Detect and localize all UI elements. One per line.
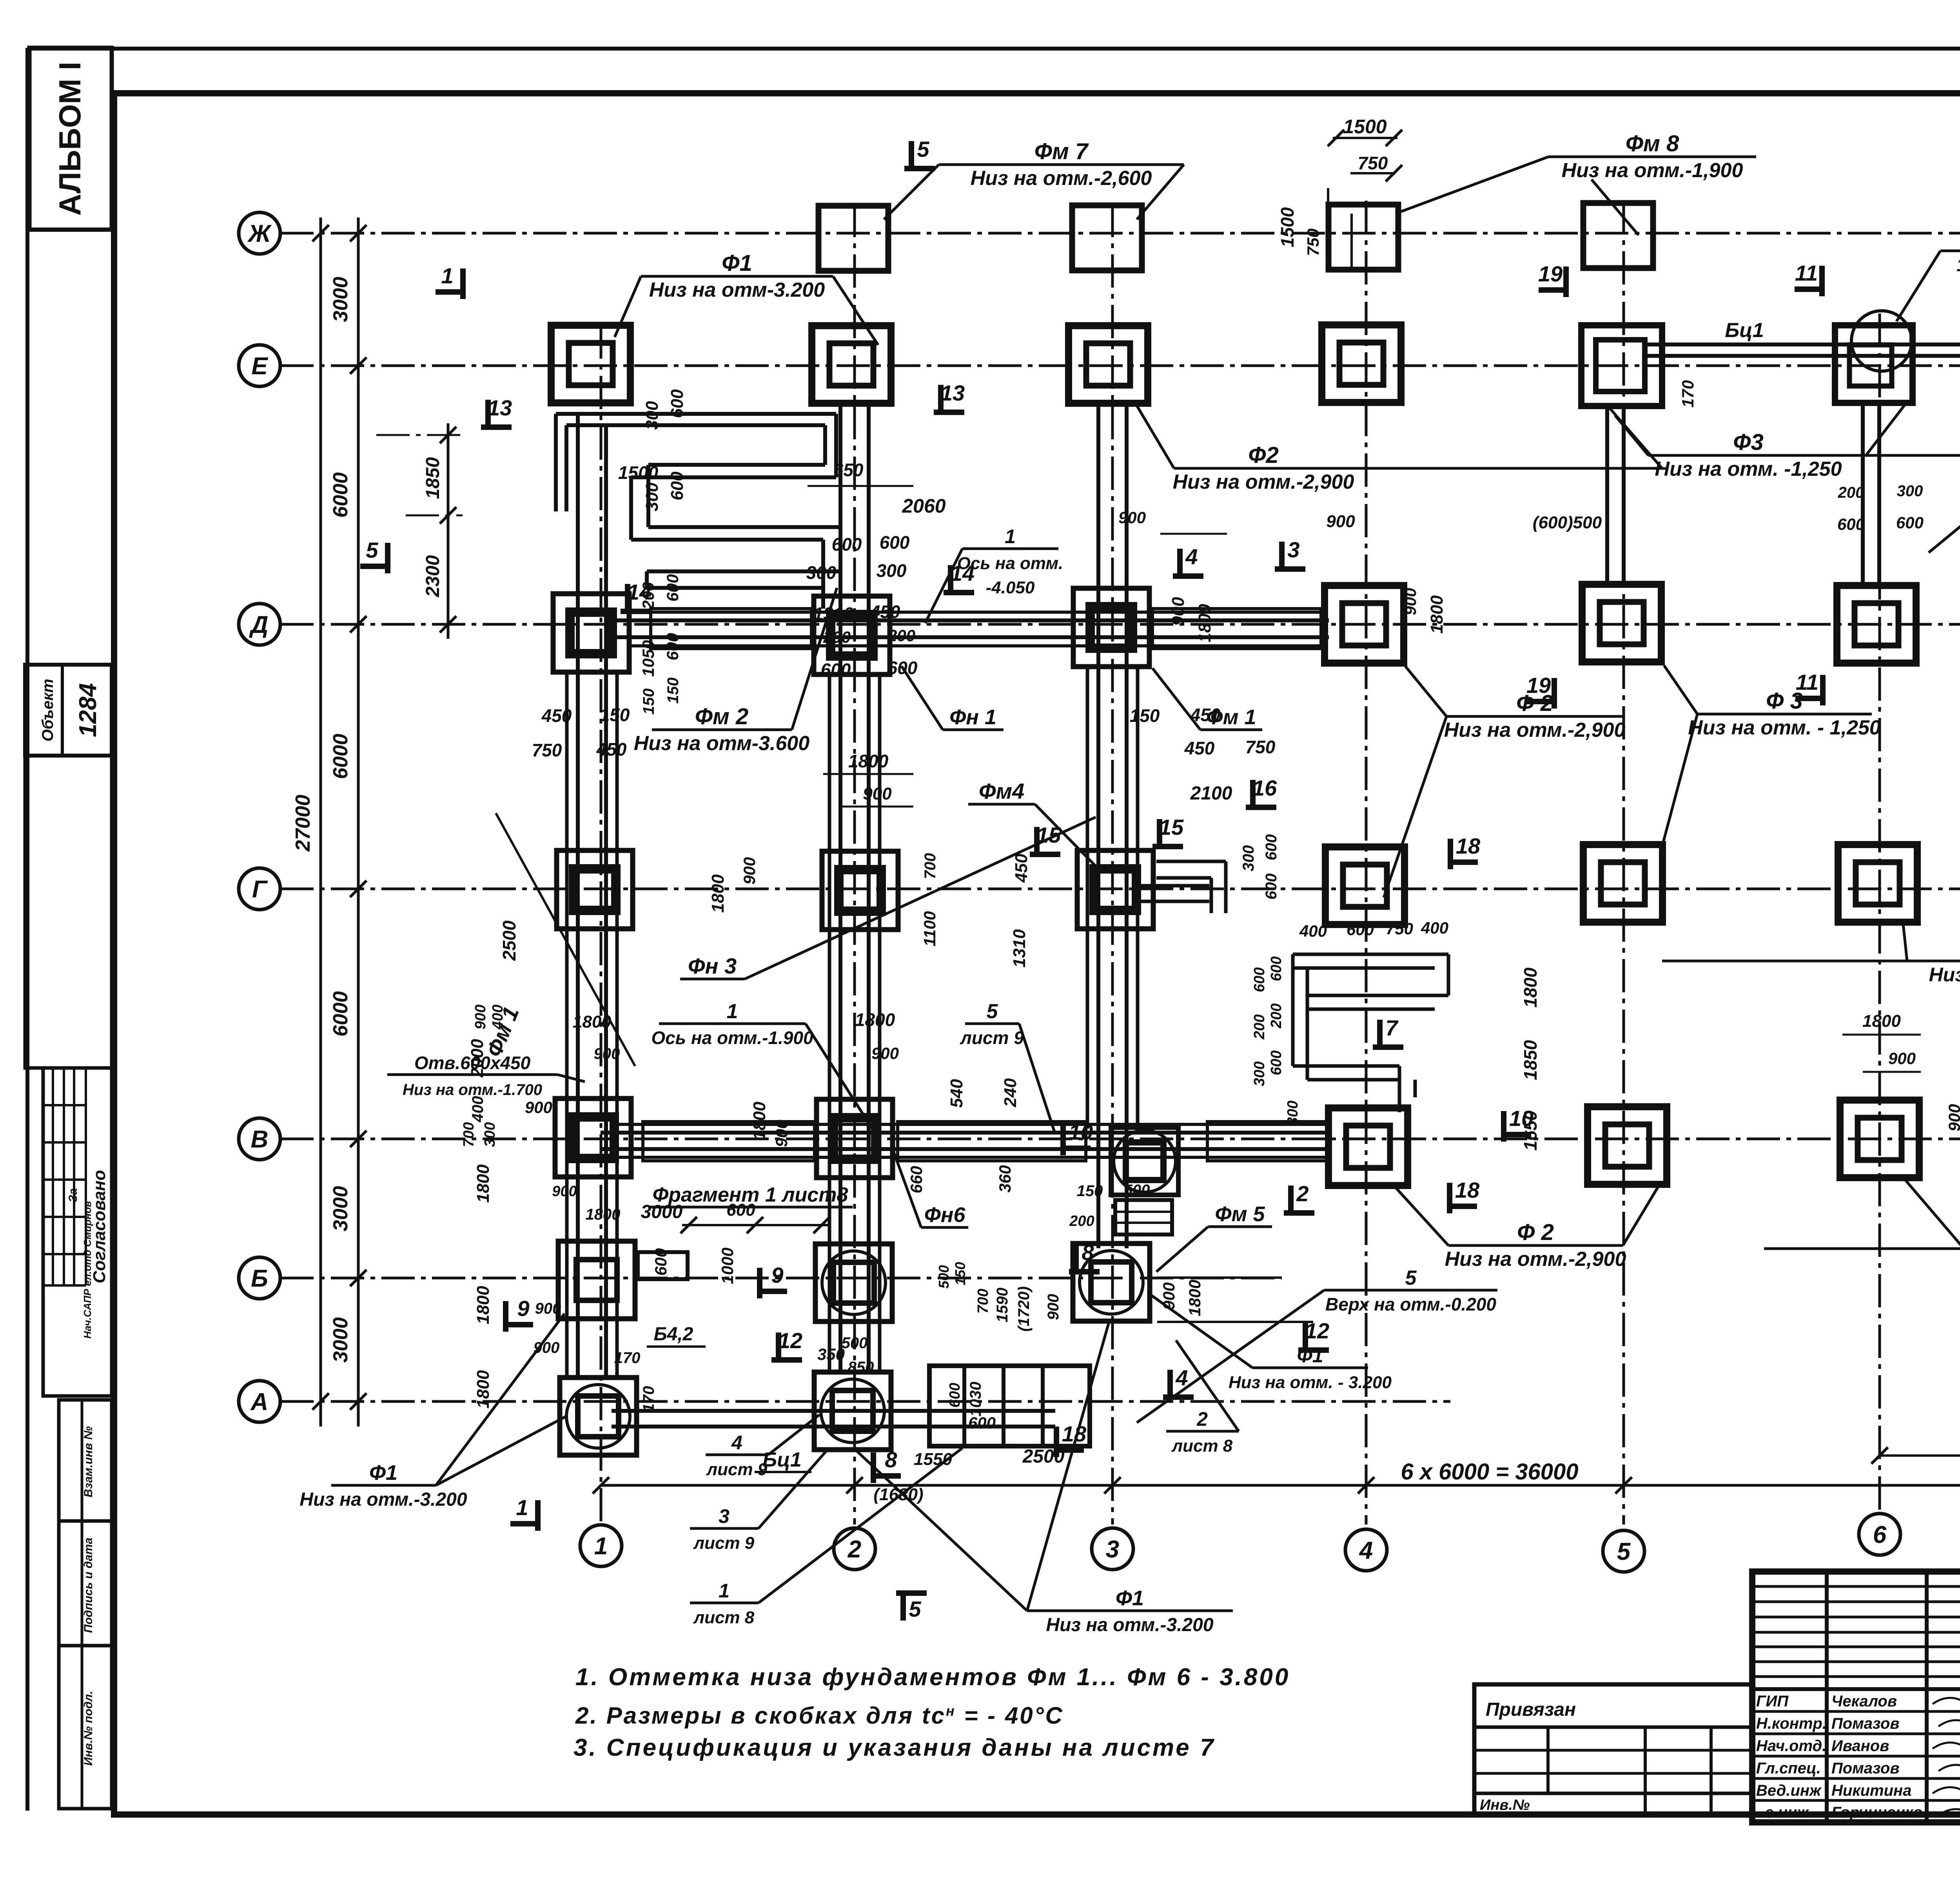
svg-text:1500: 1500	[1343, 116, 1387, 138]
svg-text:5: 5	[1617, 1538, 1631, 1565]
svg-text:Фм 8: Фм 8	[1626, 131, 1679, 156]
svg-text:600: 600	[1347, 920, 1374, 939]
svg-text:15: 15	[1036, 823, 1061, 847]
svg-text:1050: 1050	[639, 640, 657, 676]
strip link col3-col4 row Г	[1133, 884, 1209, 888]
svg-text:1284: 1284	[74, 683, 102, 737]
svg-text:300: 300	[642, 482, 662, 511]
svg-text:Ф1: Ф1	[369, 1461, 397, 1485]
svg-text:лист 8: лист 8	[1171, 1436, 1233, 1456]
svg-text:Ф1: Ф1	[722, 250, 752, 276]
svg-text:2500: 2500	[499, 920, 519, 961]
svg-text:2060: 2060	[902, 495, 946, 517]
axis line 4	[1365, 201, 1368, 1525]
section mark 18 at (3700,2200)	[1450, 859, 1478, 865]
svg-text:5: 5	[917, 137, 929, 161]
svg-text:Низ на отм. - 1,250: Низ на отм. - 1,250	[1688, 716, 1881, 739]
svg-text:27000: 27000	[292, 795, 314, 852]
foundation square col5 row Е with strip connection	[1581, 325, 1662, 406]
svg-text:лист 8: лист 8	[693, 1608, 755, 1627]
svg-text:600: 600	[1263, 874, 1280, 900]
svg-text:6: 6	[1873, 1521, 1887, 1548]
axis bubble 1	[580, 1525, 622, 1566]
svg-text:1800: 1800	[1195, 604, 1214, 642]
svg-text:5: 5	[1405, 1267, 1417, 1289]
svg-text:6 х 6000 = 36000: 6 х 6000 = 36000	[1401, 1459, 1578, 1485]
svg-text:450: 450	[596, 739, 627, 760]
svg-text:лист 9: лист 9	[960, 1028, 1024, 1048]
section mark 4 at (3010,1470)	[1177, 549, 1183, 576]
section mark 13 at (1245,1090)	[485, 400, 491, 427]
svg-text:900: 900	[772, 1120, 791, 1147]
svg-text:1: 1	[516, 1495, 528, 1520]
svg-text:900: 900	[871, 1044, 899, 1062]
section mark 12 at (3330,3445)	[1303, 1323, 1308, 1350]
svg-text:4: 4	[1185, 544, 1198, 569]
porch foundation block	[929, 1366, 1090, 1446]
svg-text:900: 900	[525, 1098, 552, 1117]
svg-text:Низ на отм.-2,600: Низ на отм.-2,600	[971, 167, 1152, 190]
svg-text:1800: 1800	[855, 1010, 895, 1030]
svg-text:150: 150	[952, 1262, 968, 1285]
svg-text:Низ на отм.-2,900: Низ на отм.-2,900	[1173, 471, 1354, 493]
axis bubble 5	[1603, 1530, 1644, 1572]
svg-text:3: 3	[1287, 537, 1299, 562]
svg-text:Иванов: Иванов	[1831, 1737, 1889, 1755]
label 52	[1940, 250, 1960, 252]
svg-text:Фм 2: Фм 2	[695, 704, 749, 729]
svg-text:350: 350	[817, 1345, 845, 1363]
svg-text:900: 900	[472, 1004, 489, 1029]
svg-text:1550: 1550	[914, 1450, 952, 1469]
svg-text:лист 9: лист 9	[706, 1460, 768, 1479]
svg-text:600: 600	[887, 658, 918, 678]
foundation double square at (4790,2254)	[1838, 845, 1917, 922]
svg-text:750: 750	[1358, 153, 1388, 173]
svg-text:1800: 1800	[708, 874, 728, 913]
foundation double square at (2827,930)	[1069, 326, 1148, 403]
label Фм1-прав	[1200, 729, 1262, 731]
label Отв	[387, 1073, 557, 1076]
svg-text:3: 3	[1106, 1536, 1119, 1563]
svg-text:Фн 1: Фн 1	[949, 705, 996, 729]
svg-text:18: 18	[1455, 1178, 1480, 1202]
label оcь4050	[962, 547, 1058, 550]
building foundation at (1522,3266) rows Б/А	[558, 1241, 635, 1319]
svg-text:3: 3	[719, 1505, 730, 1527]
section mark 9 at (1290,3380)	[506, 1322, 533, 1327]
label Фн3	[680, 978, 745, 981]
svg-text:Низ на отм.-1.700: Низ на отм.-1.700	[403, 1081, 542, 1099]
svg-text:400: 400	[490, 1004, 506, 1030]
svg-text:200: 200	[1838, 484, 1864, 501]
svg-text:1100: 1100	[920, 911, 939, 946]
section mark 10 at (3836,2895)	[1504, 1132, 1531, 1137]
foundation double square at (3490,2926)	[1328, 1108, 1408, 1186]
svg-text:300: 300	[806, 562, 837, 583]
svg-text:19: 19	[1526, 673, 1551, 698]
svg-text:Ф1: Ф1	[1116, 1586, 1144, 1610]
svg-text:Подпись и дата: Подпись и дата	[82, 1537, 95, 1633]
label лист8-2	[1166, 1430, 1239, 1433]
label лист9-4	[706, 1454, 768, 1456]
building foundation at (2175,3600) rows Б/А	[814, 1372, 891, 1450]
svg-text:900: 900	[1945, 1104, 1960, 1131]
svg-text:11: 11	[1796, 670, 1818, 694]
svg-text:1800: 1800	[573, 1012, 611, 1031]
svg-text:450: 450	[1184, 738, 1215, 758]
section mark 11 at (4650,1782)	[1795, 696, 1823, 701]
svg-text:9: 9	[517, 1296, 529, 1321]
svg-text:2000: 2000	[468, 1039, 487, 1078]
label Ф3-Г	[1907, 960, 1960, 963]
svg-text:200: 200	[639, 582, 657, 610]
svg-text:2: 2	[1196, 1408, 1208, 1430]
section mark 1 at (1181,745)	[436, 289, 463, 295]
serpentine strip bar3	[648, 525, 840, 529]
svg-text:1: 1	[1005, 526, 1016, 547]
svg-text:1.030.1 - 1 В. 3-1: 1.030.1 - 1 В. 3-1	[1956, 255, 1960, 275]
svg-text:750: 750	[1304, 228, 1322, 256]
svg-text:300: 300	[1285, 1100, 1301, 1125]
svg-text:600: 600	[663, 574, 682, 602]
svg-text:1800: 1800	[474, 1370, 493, 1409]
svg-text:1800: 1800	[1862, 1012, 1901, 1031]
right vertical strip col6	[1861, 403, 1865, 585]
svg-text:Гл.спец.: Гл.спец.	[1756, 1760, 1821, 1777]
building foundation at (2835,3272) rows Б/А	[1073, 1244, 1150, 1321]
svg-text:Вед.инж: Вед.инж	[1756, 1782, 1822, 1799]
label лист8-1	[690, 1602, 759, 1604]
label Верх0200	[1324, 1289, 1497, 1292]
svg-text:300: 300	[482, 1122, 498, 1147]
svg-text:1500: 1500	[618, 462, 659, 483]
svg-text:Фм 5: Фм 5	[1215, 1202, 1265, 1226]
svg-text:Объект: Объект	[39, 679, 56, 741]
svg-text:Горчиненко: Горчиненко	[1831, 1804, 1922, 1821]
axis line В	[280, 1138, 1960, 1140]
label Ф1-срБ	[1252, 1367, 1368, 1369]
svg-text:1. Отметка низа фундаментов Ф: 1. Отметка низа фундаментов Фм 1... Фм 6…	[575, 1664, 1290, 1691]
svg-text:Низ на отм-3.200: Низ на отм-3.200	[649, 279, 825, 301]
svg-text:1310: 1310	[1010, 929, 1029, 968]
stepped strips between rows Г and В	[1293, 953, 1448, 956]
svg-text:900: 900	[535, 1300, 561, 1317]
axis line 2	[853, 204, 856, 1525]
svg-text:Ф2: Ф2	[1248, 442, 1279, 468]
svg-text:12: 12	[778, 1328, 802, 1353]
section mark 8 at (2228,3766)	[873, 1473, 901, 1479]
svg-text:1850: 1850	[423, 457, 443, 499]
svg-text:Низ на отм. - 3.200: Низ на отм. - 3.200	[1229, 1373, 1392, 1392]
section mark 1 at (1372,3888)	[510, 1521, 538, 1526]
section mark 19 at (3995,740)	[1539, 287, 1566, 293]
svg-text:1800: 1800	[1185, 1280, 1204, 1316]
svg-text:750: 750	[1245, 737, 1276, 757]
svg-text:150: 150	[1130, 705, 1160, 726]
dim line 1850/2300	[447, 423, 450, 639]
svg-text:6000: 6000	[329, 472, 352, 518]
building foundation col3 row В (offset)	[1111, 1128, 1178, 1195]
svg-text:1590: 1590	[994, 1288, 1011, 1323]
section mark 14 at (2425,1512)	[948, 565, 953, 593]
label Ф2-Е	[1174, 467, 1353, 470]
serpentine strip right link	[834, 414, 838, 477]
svg-text:1030: 1030	[967, 1382, 984, 1417]
stub rect right of col1 row Б	[638, 1252, 688, 1279]
svg-text:5: 5	[909, 1597, 921, 1621]
left strip tall empty box	[25, 756, 112, 1068]
svg-text:Г: Г	[252, 876, 268, 903]
svg-text:11: 11	[1795, 261, 1818, 285]
axis line 3	[1111, 204, 1114, 1525]
axis bubble 6	[1859, 1514, 1900, 1555]
axis line А	[280, 1400, 1450, 1403]
svg-text:600: 600	[1837, 515, 1865, 533]
foundation double square at (2172,930)	[812, 326, 891, 403]
svg-text:300: 300	[642, 401, 662, 430]
svg-text:2. Размеры в скобках для tcн: 2. Размеры в скобках для tcн = - 40°С	[575, 1702, 1064, 1729]
svg-text:1500: 1500	[1277, 207, 1298, 247]
svg-text:300: 300	[877, 560, 907, 581]
dim line 1800 row Е col3 (650)	[808, 485, 913, 487]
svg-text:600: 600	[968, 1414, 996, 1432]
svg-text:400: 400	[1421, 919, 1448, 937]
svg-text:1310: 1310	[813, 604, 854, 624]
label Ф1-Е	[641, 275, 833, 278]
svg-text:Инв.№: Инв.№	[1480, 1797, 1530, 1813]
svg-text:Помазов: Помазов	[1831, 1760, 1900, 1777]
svg-text:450: 450	[870, 602, 900, 622]
svg-text:Низ на отм.-3.200: Низ на отм.-3.200	[299, 1489, 467, 1510]
section mark 18 at (2695,3700)	[1056, 1447, 1084, 1453]
svg-text:200: 200	[1268, 1003, 1285, 1028]
axis bubble Б	[239, 1257, 280, 1299]
svg-text:Чекалов: Чекалов	[1831, 1693, 1897, 1710]
svg-text:600: 600	[1268, 956, 1285, 981]
axis line Д	[280, 623, 1960, 626]
svg-text:Низ на отм.-2,900: Низ на отм.-2,900	[1444, 719, 1626, 741]
label ось1900	[659, 1022, 806, 1025]
label Фм8	[1548, 156, 1756, 158]
svg-text:170: 170	[614, 1349, 641, 1367]
axis bubble 2	[834, 1528, 875, 1570]
svg-text:16: 16	[1252, 776, 1277, 800]
svg-text:Ж: Ж	[247, 220, 272, 247]
svg-text:1800: 1800	[1520, 967, 1541, 1008]
building column foundation at (2194,2272)	[822, 851, 898, 930]
section mark 12 at (1986,3470)	[776, 1332, 781, 1360]
svg-text:300: 300	[1897, 482, 1923, 500]
svg-text:3000: 3000	[641, 1202, 683, 1222]
album strip box	[29, 48, 112, 230]
label Фрагмент	[648, 1206, 853, 1209]
svg-text:2: 2	[1296, 1181, 1308, 1206]
dim 6000 between 6 and 7	[1880, 1454, 1960, 1457]
left segment dim line	[357, 218, 360, 1427]
building column foundation at (1513,2903)	[555, 1099, 631, 1177]
svg-text:Нач.САПР ел.отд Смирнов: Нач.САПР ел.отд Смирнов	[82, 1201, 93, 1339]
approval table Согласовано	[43, 1068, 112, 1396]
svg-text:1: 1	[441, 263, 453, 288]
section mark 5 at (2325,430)	[909, 141, 914, 169]
svg-text:4: 4	[1359, 1537, 1373, 1564]
svg-text:600: 600	[1268, 1050, 1285, 1075]
svg-text:Низ на отм.-2,900: Низ на отм.-2,900	[1445, 1248, 1626, 1271]
svg-text:900: 900	[1118, 508, 1146, 527]
svg-text:Помазов: Помазов	[1831, 1715, 1900, 1732]
svg-text:3000: 3000	[329, 1186, 352, 1231]
svg-text:150: 150	[664, 678, 682, 704]
svg-text:..е.инж: ..е.инж	[1756, 1804, 1809, 1821]
svg-text:19: 19	[1538, 261, 1563, 286]
svg-text:АЛЬБОМ I: АЛЬБОМ I	[53, 62, 87, 216]
svg-text:Верх на отм.-0.200: Верх на отм.-0.200	[1325, 1294, 1496, 1314]
dim line 1800 col3 row Б	[1160, 533, 1227, 535]
svg-text:900: 900	[863, 784, 892, 803]
label Ф3-Е	[1648, 454, 1848, 457]
building foundation at (2178,3273) rows Б/А	[815, 1244, 892, 1322]
dim lines near col6 row В	[1842, 1034, 1921, 1036]
overall 27000 dim line	[319, 218, 322, 1427]
svg-text:Н.контр.: Н.контр.	[1756, 1715, 1827, 1732]
right Бц1 strip row Е	[1645, 343, 1960, 346]
svg-text:600: 600	[1263, 834, 1280, 861]
svg-text:500: 500	[842, 1334, 868, 1352]
svg-text:150: 150	[640, 689, 657, 715]
section mark 14 at (1601,1560)	[625, 584, 630, 611]
axis bubble В	[239, 1118, 280, 1160]
axis line 5	[1622, 201, 1625, 1525]
building column foundation at (2173,1621)	[814, 596, 890, 674]
foundation Фм7/Фм8 square at (2824,607)	[1072, 205, 1142, 270]
svg-text:5: 5	[366, 538, 378, 562]
label Ф1-снизу	[331, 1484, 436, 1487]
svg-text:900: 900	[534, 1339, 560, 1356]
svg-text:(1720): (1720)	[1015, 1286, 1033, 1332]
foundation double square at (4151,2923)	[1588, 1107, 1667, 1184]
svg-text:240: 240	[1001, 1078, 1020, 1108]
section mark 3 at (3270,1452)	[1279, 542, 1285, 569]
svg-text:Бц1: Бц1	[1725, 319, 1764, 342]
svg-text:Низ на отм. -1.250: Низ на отм. -1.250	[1929, 964, 1960, 986]
label Фм4	[968, 803, 1035, 806]
svg-text:600: 600	[652, 1248, 670, 1276]
svg-text:3000: 3000	[329, 277, 352, 322]
label Фм7	[939, 163, 1184, 166]
foundation Фм7/Фм8 square at (2177,608)	[818, 206, 888, 271]
svg-text:5: 5	[987, 1000, 998, 1023]
wall strip column 2	[838, 404, 842, 1374]
label Ф2-Д	[1446, 715, 1623, 718]
svg-text:Привязан: Привязан	[1486, 1699, 1576, 1720]
foundation double square at (3480,1593)	[1325, 586, 1404, 663]
serpentine strip left link	[646, 465, 650, 527]
axis bubble Д	[239, 604, 280, 645]
svg-text:Инв.№ подл.: Инв.№ подл.	[82, 1691, 95, 1766]
left strip box Инв.№ подл.	[59, 1646, 112, 1809]
section mark 9 at (1938,3295)	[760, 1289, 787, 1294]
svg-text:900: 900	[1045, 1294, 1062, 1320]
building column foundation at (1517,2270)	[557, 850, 633, 929]
svg-text:1800: 1800	[750, 1102, 769, 1140]
svg-text:450: 450	[1012, 854, 1031, 883]
svg-text:А: А	[250, 1389, 269, 1416]
svg-text:600: 600	[821, 660, 851, 680]
svg-text:700: 700	[461, 1122, 477, 1147]
svg-text:1800: 1800	[1427, 595, 1446, 634]
svg-text:10: 10	[1069, 1120, 1093, 1144]
building foundation at (1526,3614) rows Б/А	[560, 1378, 637, 1455]
svg-text:Фн 3: Фн 3	[688, 954, 737, 978]
svg-text:Нач.отд.: Нач.отд.	[1756, 1737, 1826, 1755]
title block left signature table	[1825, 1572, 1829, 1822]
svg-text:9: 9	[771, 1263, 783, 1287]
svg-text:Фм4: Фм4	[979, 779, 1024, 803]
svg-text:660: 660	[907, 1166, 926, 1193]
svg-text:-4.050: -4.050	[986, 578, 1035, 597]
foundation double square at (4795,2906)	[1840, 1100, 1919, 1178]
left strip box Подпись и дата	[59, 1521, 112, 1646]
svg-text:500: 500	[936, 1265, 952, 1289]
building column foundation at (2180,2905)	[817, 1099, 893, 1178]
dim line 3000/600 row Б	[682, 1224, 829, 1226]
svg-text:(1680): (1680)	[873, 1485, 923, 1504]
section mark 15 at (2958,2160)	[1157, 819, 1162, 847]
svg-text:650: 650	[833, 460, 864, 480]
object box 1284	[25, 665, 112, 756]
svg-text:Низ на отм.-3.200: Низ на отм.-3.200	[1046, 1615, 1213, 1635]
axis bubble Ж	[239, 212, 280, 254]
axis bubble 3	[1092, 1528, 1133, 1570]
svg-text:1: 1	[727, 1000, 738, 1023]
section mark 8 at (2745,3245)	[1073, 1244, 1079, 1272]
svg-text:лист 9: лист 9	[693, 1534, 755, 1553]
row А strip Бц1	[612, 1409, 1055, 1413]
foundation double square at (4137,1590)	[1582, 584, 1661, 662]
svg-text:1800: 1800	[474, 1164, 493, 1203]
svg-text:600: 600	[1251, 967, 1268, 992]
label Ф3-Д	[1697, 713, 1872, 716]
svg-text:850: 850	[848, 1359, 874, 1376]
svg-text:700: 700	[922, 853, 939, 879]
axis line 6	[1878, 314, 1881, 1513]
svg-text:Никитина: Никитина	[1831, 1782, 1911, 1799]
serpentine strip Фм2 bar1	[556, 412, 836, 416]
svg-text:600: 600	[947, 1383, 963, 1407]
svg-text:Взам.инв №: Взам.инв №	[82, 1426, 95, 1497]
svg-text:Фм 7: Фм 7	[1034, 139, 1089, 164]
label Фн1	[943, 729, 1004, 731]
section mark 13 at (2400,1052)	[938, 385, 944, 412]
pit block 1000	[1115, 1200, 1172, 1235]
svg-text:Б4,2: Б4,2	[654, 1324, 693, 1345]
svg-text:7: 7	[1385, 1015, 1399, 1040]
svg-text:750: 750	[1386, 919, 1413, 938]
section mark 5 at (989,1445)	[360, 564, 388, 569]
svg-text:За: За	[67, 1188, 80, 1202]
svg-text:Е: Е	[251, 353, 268, 380]
svg-text:300: 300	[1251, 1061, 1268, 1086]
label Фм5	[1208, 1225, 1272, 1228]
dim chain right of col3 row Б	[1157, 1276, 1282, 1279]
outer page border	[25, 48, 29, 1811]
building column foundation at (2835,1601)	[1073, 588, 1149, 667]
svg-text:900: 900	[1888, 1049, 1916, 1068]
svg-text:18: 18	[1456, 834, 1481, 858]
svg-text:3. Спецификация и указания: 3. Спецификация и указания даны на листе…	[573, 1734, 1215, 1761]
svg-text:ГИП: ГИП	[1756, 1693, 1789, 1710]
